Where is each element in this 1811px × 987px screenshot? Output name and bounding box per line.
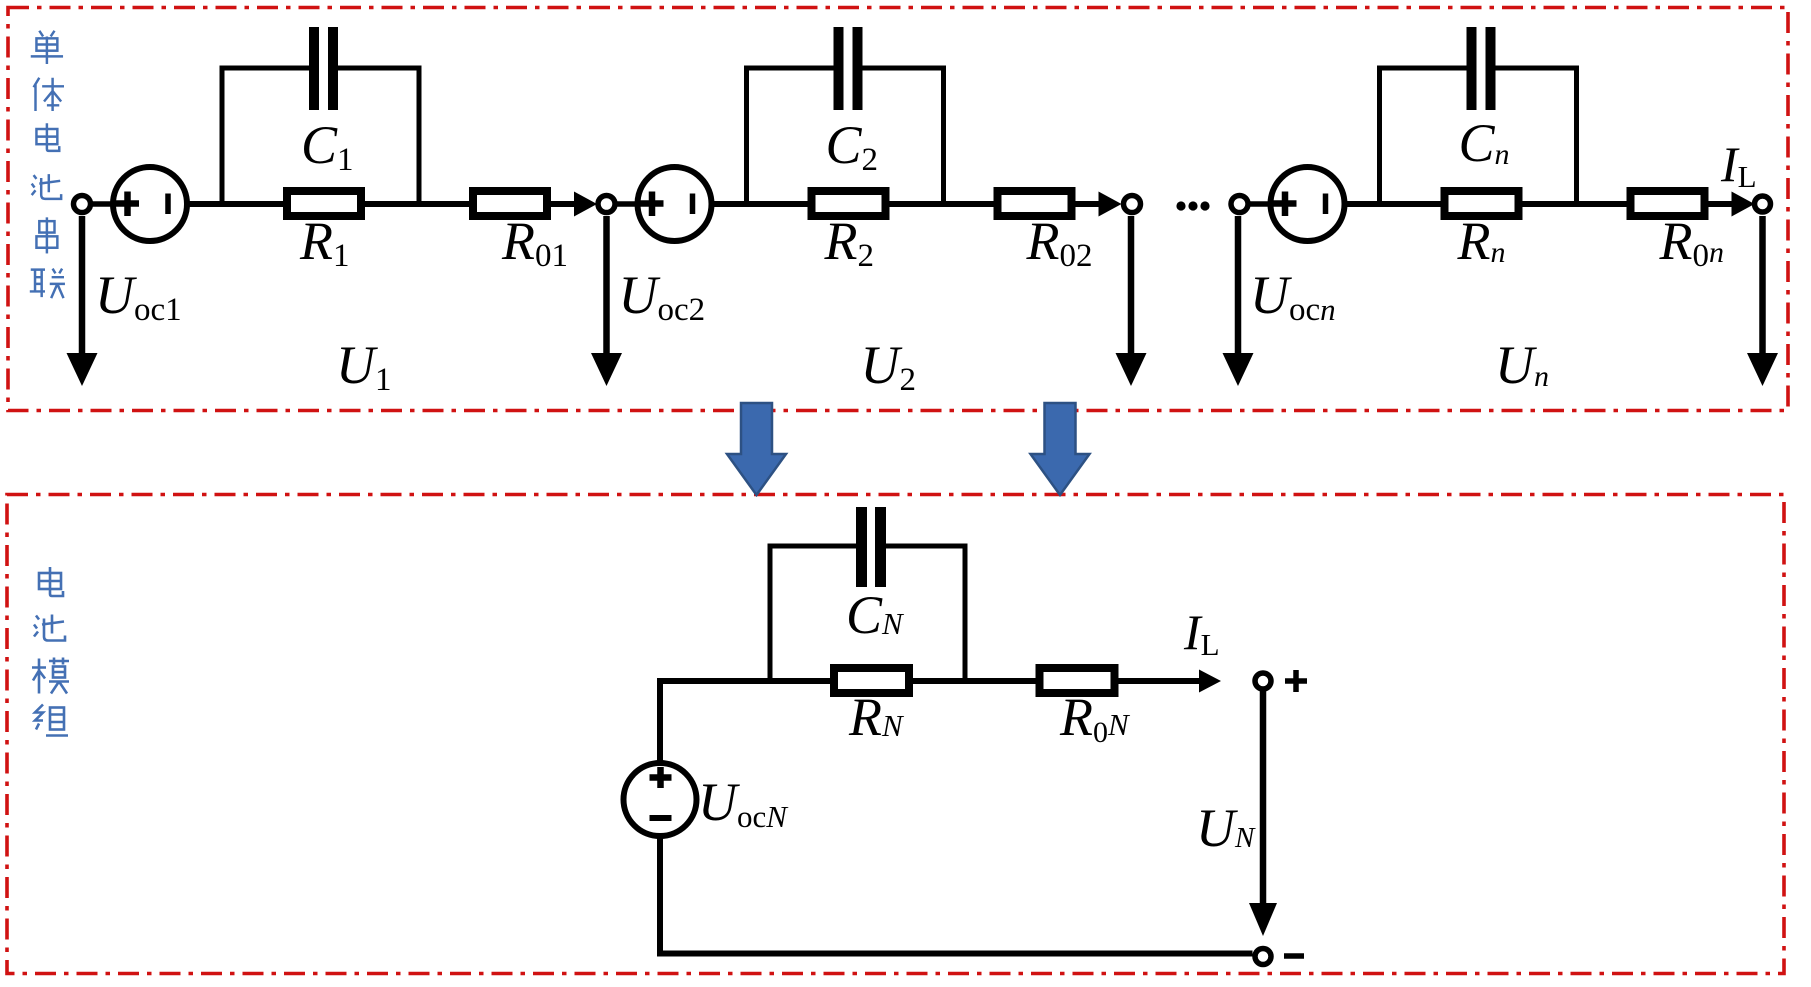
svg-text:Un: Un [1495, 335, 1549, 395]
svg-text:U2: U2 [861, 335, 917, 398]
svg-text:R02: R02 [1026, 211, 1093, 274]
svg-text:C1: C1 [301, 115, 354, 178]
svg-text:C2: C2 [826, 115, 879, 178]
svg-text:Cn: Cn [1459, 113, 1510, 173]
svg-text:R1: R1 [299, 211, 350, 274]
svg-text:CN: CN [846, 585, 905, 645]
svg-text:U1: U1 [336, 335, 392, 398]
svg-text:R0n: R0n [1659, 211, 1725, 274]
svg-text:R01: R01 [501, 211, 568, 274]
svg-text:IL: IL [1720, 136, 1757, 194]
svg-text:IL: IL [1183, 604, 1220, 662]
svg-text:R2: R2 [824, 211, 875, 274]
svg-text:Uoc2: Uoc2 [619, 265, 706, 328]
svg-text:Uoc1: Uoc1 [95, 265, 182, 328]
svg-text:UN: UN [1196, 798, 1256, 858]
svg-text:UocN: UocN [698, 772, 789, 834]
svg-text:Uocn: Uocn [1250, 265, 1336, 328]
